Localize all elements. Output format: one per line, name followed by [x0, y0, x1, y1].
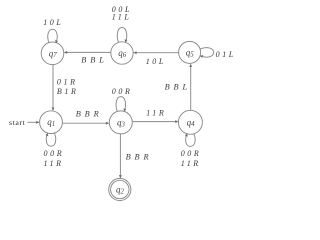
svg-text:q2: q2: [116, 185, 125, 196]
arrowhead q3->q4: [175, 120, 178, 123]
svg-text:10L: 10L: [146, 57, 166, 66]
self-loop q1 bottom: [46, 133, 55, 146]
state q4: [178, 110, 202, 134]
svg-text:10L: 10L: [43, 18, 63, 27]
svg-text:BBR: BBR: [126, 153, 153, 162]
arrowhead q7 loop: [55, 40, 58, 43]
self-loop q7: [48, 29, 57, 43]
state q2 final inner: [111, 180, 129, 198]
svg-text:11L: 11L: [112, 13, 132, 22]
self-loop q3 top: [116, 97, 125, 112]
state q6: [111, 42, 133, 64]
svg-text:q7: q7: [49, 48, 58, 59]
arrowhead q5 loop: [200, 55, 203, 58]
svg-text:start: start: [9, 118, 26, 127]
state q5: [179, 41, 201, 63]
wire q1 to q3: [62, 122, 107, 124]
arrowhead q4 loop: [185, 133, 188, 136]
svg-text:00R: 00R: [181, 149, 202, 158]
svg-text:q4: q4: [187, 117, 196, 128]
self-loop q4 bottom: [186, 134, 195, 147]
state q1: [40, 111, 63, 134]
svg-text:11R: 11R: [181, 159, 201, 168]
svg-text:B1R: B1R: [57, 87, 79, 96]
svg-text:01L: 01L: [216, 50, 236, 59]
svg-text:BBL: BBL: [81, 55, 107, 64]
state q3: [109, 111, 132, 134]
wire start to q1: [28, 121, 38, 123]
arrowhead q3->q2: [119, 175, 122, 178]
wire q3 down to q2: [119, 134, 121, 177]
arrowhead q1 loop: [46, 133, 49, 136]
arrowhead q7->q1: [52, 108, 55, 111]
arrowhead q1->q3: [106, 122, 109, 125]
svg-text:00R: 00R: [112, 87, 133, 96]
svg-text:01R: 01R: [57, 77, 78, 86]
arrowhead start->q1: [36, 121, 39, 124]
self-loop q6: [117, 28, 126, 43]
arrowhead into q7: [64, 51, 67, 54]
svg-text:BBR: BBR: [76, 110, 103, 119]
svg-text:q1: q1: [47, 117, 55, 128]
svg-text:q6: q6: [118, 48, 127, 59]
self-loop q5 right: [200, 48, 213, 57]
wire q6 to q7: [66, 51, 111, 53]
state q2 final outer: [109, 178, 131, 200]
wire q3 to q4: [132, 121, 176, 123]
wire q4 up to q5: [190, 66, 192, 111]
state q7: [41, 42, 64, 65]
arrowhead q6 loop: [125, 39, 128, 42]
svg-text:q5: q5: [186, 47, 195, 58]
wire q7 down to q1: [52, 65, 54, 109]
arrowhead q3 loop: [123, 108, 126, 111]
svg-text:11R: 11R: [146, 108, 166, 117]
svg-text:11R: 11R: [44, 159, 64, 168]
svg-text:BBL: BBL: [165, 82, 191, 91]
arrowhead q4->q5: [189, 64, 192, 67]
arrowhead into q6: [133, 51, 136, 54]
svg-text:00R: 00R: [44, 149, 65, 158]
svg-text:q3: q3: [117, 117, 126, 128]
wire q5 to q6: [135, 52, 178, 54]
